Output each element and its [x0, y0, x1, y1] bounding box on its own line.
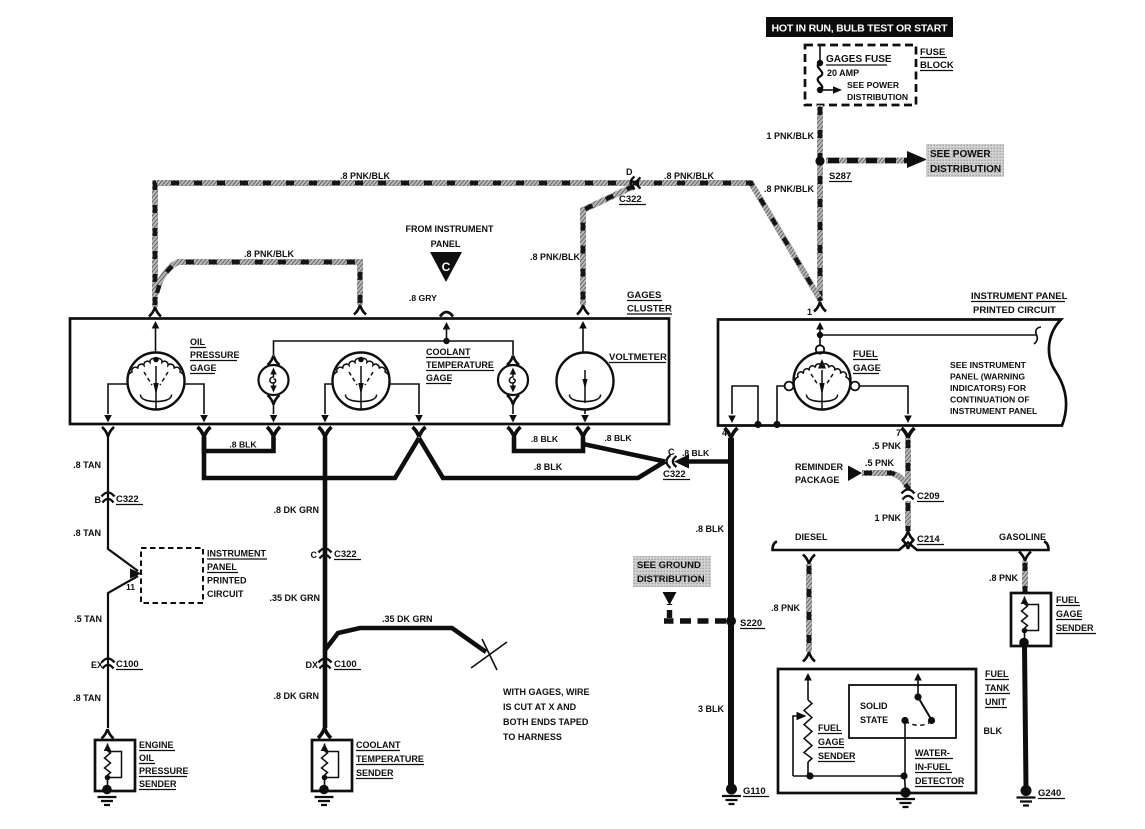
svg-text:SEE POWER: SEE POWER	[847, 80, 900, 90]
svg-text:G110: G110	[743, 786, 766, 797]
svg-text:.8 PNK/BLK: .8 PNK/BLK	[244, 249, 295, 259]
svg-text:REMINDER: REMINDER	[795, 462, 844, 472]
svg-text:7: 7	[896, 428, 901, 438]
svg-text:SENDER: SENDER	[356, 768, 394, 778]
wire .8 BLK voltmeter diagonal	[583, 444, 665, 462]
svg-text:.8 GRY: .8 GRY	[409, 293, 437, 303]
terminal stub coolant right	[413, 427, 426, 437]
svg-text:GAGE: GAGE	[853, 363, 881, 374]
svg-text:.35 DK GRN: .35 DK GRN	[269, 593, 320, 603]
svg-text:DIESEL: DIESEL	[795, 532, 828, 542]
svg-text:.8 TAN: .8 TAN	[73, 528, 101, 538]
svg-text:INDICATORS) FOR: INDICATORS) FOR	[950, 383, 1027, 393]
connector C322 D	[631, 177, 641, 190]
svg-text:.8 DK GRN: .8 DK GRN	[273, 505, 319, 515]
svg-text:WATER-: WATER-	[915, 748, 950, 758]
wire to continuation squiggle	[820, 334, 1036, 336]
op-amp fuel gage	[794, 353, 851, 410]
svg-text:SOLID: SOLID	[860, 701, 888, 711]
svg-text:DISTRIBUTION: DISTRIBUTION	[847, 92, 908, 102]
svg-text:.8 BLK: .8 BLK	[531, 434, 559, 444]
grommet arc at gages cluster entry	[440, 312, 453, 317]
svg-text:G240: G240	[1038, 788, 1061, 799]
splice S287	[815, 156, 824, 165]
svg-text:.8 PNK: .8 PNK	[771, 603, 801, 613]
svg-text:.8 PNK/BLK: .8 PNK/BLK	[340, 171, 391, 181]
svg-text:GAGE: GAGE	[190, 363, 217, 373]
svg-text:CIRCUIT: CIRCUIT	[207, 589, 244, 599]
svg-text:GAGE: GAGE	[1056, 609, 1083, 619]
svg-text:COOLANT: COOLANT	[356, 740, 401, 750]
fuel gage sender box (gasoline)	[1011, 593, 1051, 646]
connector chevron oil feed	[149, 307, 161, 317]
wire gry entry	[443, 322, 451, 330]
svg-text:WITH GAGES, WIRE: WITH GAGES, WIRE	[503, 687, 590, 697]
fuse GAGES FUSE 20 AMP	[818, 63, 823, 90]
rheostat fuel gage sender (diesel)	[804, 673, 812, 681]
engine oil pressure sender chevron	[102, 729, 114, 739]
svg-text:TEMPERATURE: TEMPERATURE	[356, 754, 424, 764]
svg-text:IS CUT AT X AND: IS CUT AT X AND	[503, 702, 577, 712]
solid state box	[849, 685, 956, 738]
wiper arrow	[797, 712, 807, 720]
svg-text:SENDER: SENDER	[139, 779, 177, 789]
splice S220	[726, 616, 736, 626]
svg-text:ENGINE: ENGINE	[139, 740, 174, 750]
svg-text:OIL: OIL	[139, 753, 155, 763]
wire fuel right terminal to pin 7	[859, 386, 908, 414]
wire BLK to G240	[1025, 646, 1027, 788]
terminal stub coolant left	[319, 427, 332, 437]
resistor oil sender	[102, 744, 121, 795]
connector triangle reminder	[848, 466, 862, 482]
svg-text:GAGE: GAGE	[426, 373, 453, 383]
svg-text:FUEL: FUEL	[818, 723, 842, 733]
instrument panel printed circuit dashed box	[141, 548, 203, 603]
connector C214	[902, 531, 914, 541]
wire dashed arrow to see power distribution	[826, 158, 910, 164]
svg-text:C: C	[442, 260, 451, 274]
cut X mark	[471, 639, 507, 670]
resistor coolant sender	[319, 744, 338, 795]
svg-text:C: C	[668, 447, 675, 457]
instrument panel printed circuit box (torn right edge)	[718, 320, 1066, 426]
svg-text:BOTH ENDS TAPED: BOTH ENDS TAPED	[503, 717, 589, 727]
svg-text:C209: C209	[917, 491, 940, 502]
wire pin 4 jumper	[754, 421, 761, 428]
svg-text:DX: DX	[305, 660, 318, 670]
svg-text:GASOLINE: GASOLINE	[999, 532, 1046, 542]
svg-text:.8 BLK: .8 BLK	[695, 524, 724, 534]
svg-text:C322: C322	[334, 549, 357, 560]
svg-text:.5 PNK: .5 PNK	[872, 441, 902, 451]
svg-text:.8 TAN: .8 TAN	[73, 460, 101, 470]
svg-text:S287: S287	[829, 171, 851, 182]
wire 1 PNK	[905, 501, 911, 531]
svg-text:.35 DK GRN: .35 DK GRN	[382, 614, 433, 624]
svg-text:B: B	[95, 495, 102, 505]
wire oil right terminal	[185, 384, 205, 414]
svg-text:CLUSTER: CLUSTER	[627, 304, 672, 315]
svg-text:SEE GROUND: SEE GROUND	[637, 560, 701, 571]
node fuse bottom	[817, 87, 823, 93]
svg-text:GAGES: GAGES	[627, 290, 661, 301]
svg-text:INSTRUMENT: INSTRUMENT	[207, 549, 266, 559]
svg-text:SEE POWER: SEE POWER	[930, 149, 991, 160]
wire coolant right terminal	[390, 384, 420, 414]
svg-text:3 BLK: 3 BLK	[698, 704, 725, 714]
svg-text:11: 11	[126, 582, 135, 592]
svg-text:DISTRIBUTION: DISTRIBUTION	[930, 164, 1001, 175]
svg-text:PANEL (WARNING: PANEL (WARNING	[950, 372, 1025, 382]
wire .8 BLK / 3 BLK to G110	[728, 438, 734, 786]
wire .8 BLK U bulb to voltmeter	[514, 437, 583, 451]
svg-text:.8 PNK/BLK: .8 PNK/BLK	[664, 171, 715, 181]
voltmeter U	[579, 321, 587, 329]
svg-text:C322: C322	[663, 469, 686, 480]
svg-text:DISTRIBUTION: DISTRIBUTION	[637, 574, 705, 585]
svg-text:.8 BLK: .8 BLK	[229, 440, 257, 450]
wire .5 PNK reminder	[862, 473, 907, 487]
svg-text:.8 DK GRN: .8 DK GRN	[273, 691, 319, 701]
svg-text:FUEL: FUEL	[853, 349, 878, 360]
svg-text:PRESSURE: PRESSURE	[139, 766, 189, 776]
wire .8 BLK main bus	[204, 437, 419, 478]
connector C209	[902, 490, 915, 500]
svg-text:.8 BLK: .8 BLK	[534, 462, 563, 472]
svg-text:UNIT: UNIT	[985, 697, 1006, 707]
svg-text:PACKAGE: PACKAGE	[795, 475, 839, 485]
gages cluster box	[70, 319, 669, 425]
wire .8 TAN down with pin 11 detour	[108, 437, 138, 572]
pin 1 arrow inside	[816, 322, 824, 330]
connector C322 C (ground bus)	[667, 455, 677, 468]
svg-text:C100: C100	[116, 659, 139, 670]
svg-text:FUEL: FUEL	[985, 669, 1009, 679]
ground oil sender	[98, 797, 117, 805]
svg-text:PRESSURE: PRESSURE	[190, 350, 240, 360]
connector C100 EX	[102, 659, 115, 669]
svg-text:.8 TAN: .8 TAN	[73, 693, 101, 703]
node fuse top	[817, 60, 823, 66]
svg-text:1 PNK/BLK: 1 PNK/BLK	[766, 131, 814, 141]
svg-text:C: C	[311, 550, 318, 560]
svg-text:STATE: STATE	[860, 715, 888, 725]
connector chevron voltmeter feed	[577, 305, 589, 315]
fuel gage left terminal	[785, 382, 794, 391]
terminal stub oil tan	[102, 427, 114, 437]
lamp left bulb	[268, 356, 280, 366]
connector C322 B	[102, 493, 115, 503]
water-in-fuel detector box	[778, 669, 976, 793]
svg-text:20 AMP: 20 AMP	[827, 68, 859, 78]
svg-text:C322: C322	[619, 194, 642, 205]
node gry junction	[443, 338, 449, 344]
svg-text:FUSE: FUSE	[920, 47, 945, 58]
svg-text:CONTINUATION OF: CONTINUATION OF	[950, 395, 1030, 405]
wire 1 PNK/BLK vertical from fuse block to pin 1	[817, 105, 823, 301]
svg-text:GAGES FUSE: GAGES FUSE	[826, 54, 892, 65]
ground water box	[905, 776, 906, 792]
wire oil left terminal	[108, 384, 128, 414]
terminal stub right bulb	[508, 427, 521, 437]
fuse block dashed box	[805, 45, 916, 105]
wire .8 PNK/BLK top run to gauges and diagonal to pin 1	[155, 183, 821, 307]
svg-text:TANK: TANK	[985, 683, 1010, 693]
svg-text:IN-FUEL: IN-FUEL	[915, 762, 951, 772]
svg-text:1: 1	[807, 307, 812, 317]
oil pressure gage pin arrow	[152, 321, 160, 329]
svg-text:.8 PNK/BLK: .8 PNK/BLK	[764, 184, 815, 194]
wire fuel left terminal to bottom	[777, 386, 785, 424]
wire .5 PNK to C209	[905, 438, 911, 489]
label see power distribution (shaded)	[926, 144, 1004, 177]
node pin1 junction	[817, 332, 823, 338]
lamp right bulb	[507, 356, 519, 366]
wire voltmeter bottom terminal	[584, 410, 586, 415]
coolant sender chevron	[318, 728, 331, 738]
connector triangle C	[430, 252, 462, 282]
svg-text:1 PNK: 1 PNK	[874, 513, 901, 523]
svg-text:C214: C214	[917, 534, 940, 545]
svg-text:SEE INSTRUMENT: SEE INSTRUMENT	[950, 360, 1027, 370]
svg-text:C322: C322	[116, 494, 139, 505]
wire .8 DK GRN down	[323, 437, 328, 728]
svg-text:PANEL: PANEL	[207, 562, 237, 572]
svg-text:PRINTED CIRCUIT: PRINTED CIRCUIT	[973, 305, 1056, 316]
harness split bracket	[773, 542, 1049, 551]
svg-text:INSTRUMENT PANEL: INSTRUMENT PANEL	[950, 406, 1037, 416]
svg-text:SENDER: SENDER	[1056, 623, 1094, 633]
svg-text:BLK: BLK	[984, 726, 1003, 736]
svg-text:FROM INSTRUMENT: FROM INSTRUMENT	[406, 224, 494, 234]
engine oil pressure sender box	[95, 740, 135, 791]
wire branch .8 PNK/BLK to coolant gage	[155, 262, 360, 305]
connector chevron coolant feed	[354, 305, 366, 315]
bottom rail	[793, 775, 904, 777]
svg-text:.8 PNK/BLK: .8 PNK/BLK	[530, 252, 581, 262]
svg-text:FUEL: FUEL	[1056, 595, 1080, 605]
wire fuse feed	[819, 45, 821, 63]
svg-text:TO HARNESS: TO HARNESS	[503, 732, 562, 742]
fuel gage top terminal	[816, 345, 824, 353]
connector C322 C	[319, 549, 332, 559]
fuel gage right terminal	[851, 382, 860, 391]
svg-text:D: D	[626, 167, 633, 177]
wire .8 PNK diesel branch	[803, 555, 815, 565]
svg-text:S220: S220	[740, 618, 762, 629]
svg-text:EX: EX	[91, 660, 103, 670]
wire spur from D to voltmeter	[583, 186, 634, 305]
svg-text:.5 PNK: .5 PNK	[865, 458, 895, 468]
terminal stub oil blk	[198, 427, 211, 437]
svg-text:BLOCK: BLOCK	[920, 60, 954, 71]
ground coolant sender	[315, 797, 334, 805]
svg-text:VOLTMETER: VOLTMETER	[609, 352, 667, 363]
svg-text:INSTRUMENT PANEL: INSTRUMENT PANEL	[971, 291, 1068, 302]
label FUSE BLOCK	[920, 47, 954, 71]
connector chevron pin 1	[814, 302, 826, 312]
coolant temperature sender box	[312, 740, 352, 791]
svg-text:.5 TAN: .5 TAN	[74, 614, 102, 624]
wire lamp feed horizontal	[274, 341, 514, 355]
switch water sensor	[914, 673, 922, 681]
svg-text:DETECTOR: DETECTOR	[915, 776, 965, 786]
resistor fuel gage sender (gasoline)	[1019, 597, 1038, 648]
svg-text:HOT IN RUN, BULB TEST OR START: HOT IN RUN, BULB TEST OR START	[772, 23, 949, 35]
connector C100 DX	[319, 659, 332, 669]
svg-text:.8 BLK: .8 BLK	[604, 433, 632, 443]
svg-text:.8 PNK: .8 PNK	[989, 573, 1019, 583]
wire dashed to ground distribution	[664, 618, 726, 623]
svg-text:SENDER: SENDER	[818, 751, 856, 761]
op-amp coolant temperature gage	[333, 353, 390, 410]
op-amp oil pressure gage	[128, 353, 185, 410]
banner HOT IN RUN, BULB TEST OR START	[766, 17, 953, 37]
wire coolant left terminal	[325, 384, 333, 414]
ground G110	[726, 784, 737, 795]
svg-text:PANEL: PANEL	[431, 239, 461, 249]
svg-text:GAGE: GAGE	[818, 737, 845, 747]
svg-text:C100: C100	[334, 659, 357, 670]
svg-text:PRINTED: PRINTED	[207, 576, 247, 586]
svg-text:.8 BLK: .8 BLK	[682, 448, 710, 458]
svg-text:COOLANT: COOLANT	[426, 347, 471, 357]
svg-text:TEMPERATURE: TEMPERATURE	[426, 360, 494, 370]
terminal stub bulb blk	[267, 427, 280, 437]
arrow see power distribution (inside fuse box)	[820, 89, 834, 91]
wire .8 PNK gasoline branch	[1019, 552, 1031, 562]
wire .35 DK GRN branch to cut X	[325, 628, 486, 652]
label see ground distribution (shaded)	[633, 556, 711, 587]
svg-text:OIL: OIL	[190, 337, 206, 347]
terminal stub voltmeter	[577, 427, 590, 437]
ground G240	[1021, 785, 1032, 796]
wire .8 BLK U oil to bulb	[204, 437, 274, 451]
